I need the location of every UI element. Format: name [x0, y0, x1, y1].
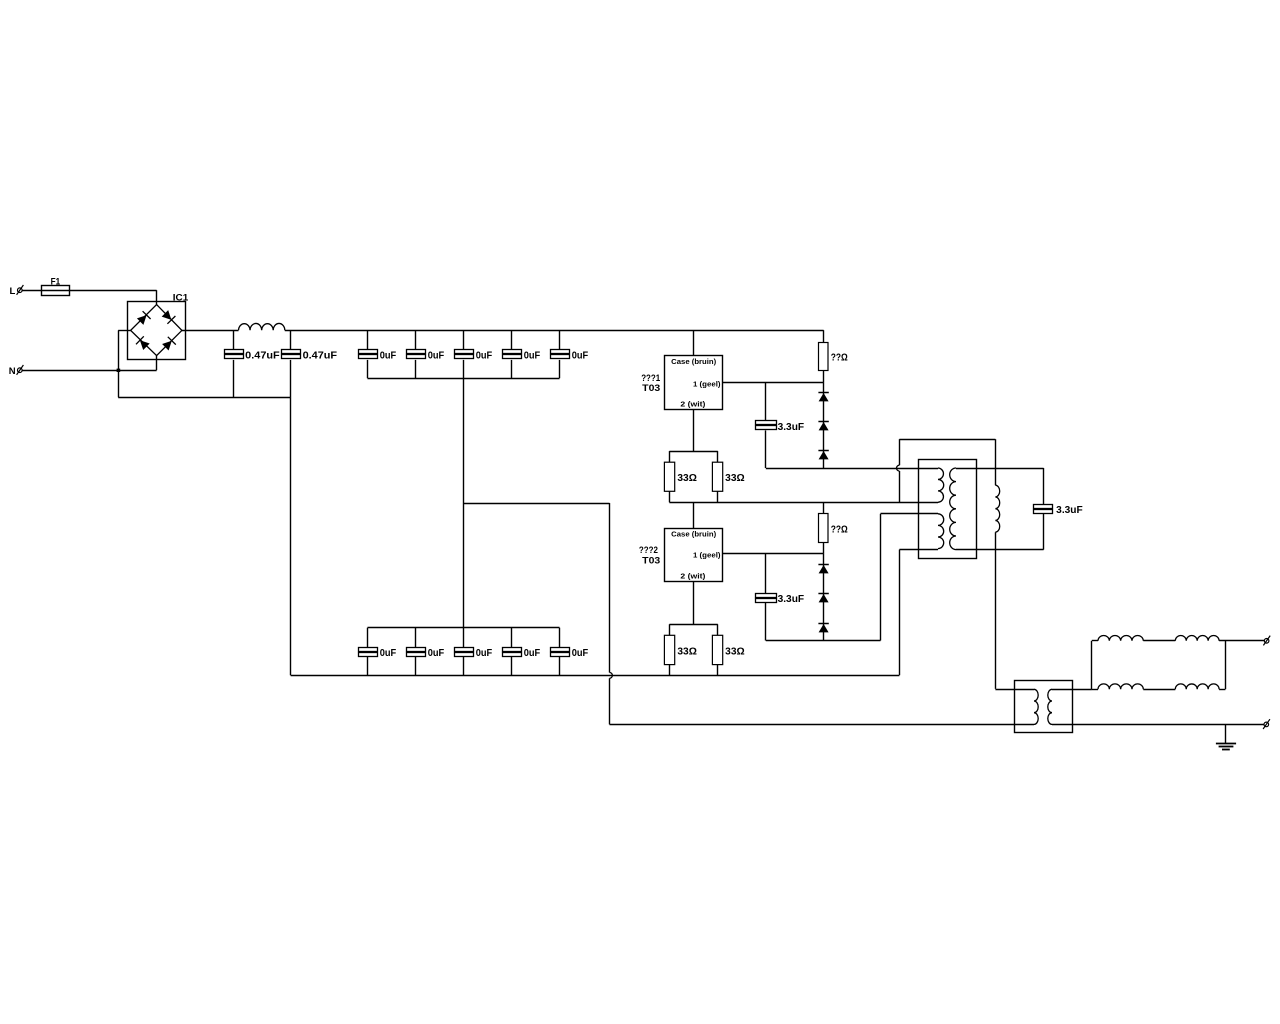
svg-text:33Ω: 33Ω	[677, 473, 697, 484]
svg-text:0.47uF: 0.47uF	[303, 350, 338, 361]
wire left bottom corner down to rail	[899, 550, 901, 676]
inductor L1 filter choke	[239, 323, 285, 330]
svg-text:0uF: 0uF	[572, 648, 589, 659]
wire T1 pin2 to 33ohm pair	[693, 409, 695, 451]
wire middle winding top to output cap	[956, 468, 1044, 470]
output transformer T2 box	[1015, 681, 1073, 733]
capacitor bank2 C9 0uF	[415, 628, 417, 648]
resistor R5 33ohm	[669, 624, 671, 635]
resistor R1 ??ohm	[823, 330, 825, 343]
svg-text:2 (wit): 2 (wit)	[680, 400, 706, 409]
svg-text:0uF: 0uF	[380, 648, 397, 659]
wire N line	[22, 370, 156, 372]
wire right edge upper	[995, 439, 997, 485]
svg-text:3.3uF: 3.3uF	[778, 594, 805, 605]
wire between inductors bottom	[1143, 689, 1175, 691]
capacitor bank1 C7 0uF	[559, 330, 561, 350]
resistor R3 33ohm	[717, 451, 719, 462]
wire to winding2 top	[881, 513, 939, 515]
wire lower return line to transformer	[610, 724, 1035, 726]
wire long left vertical to bottom rail	[290, 397, 292, 675]
capacitor C15 3.3uF output	[1043, 468, 1045, 505]
wire to output terminal 1	[1219, 640, 1264, 642]
svg-text:3.3uF: 3.3uF	[1056, 505, 1083, 516]
resistor R4 ??ohm	[823, 502, 825, 513]
wire stage2 up to winding2	[880, 514, 882, 641]
wire T2 pin2 to 33ohm pair2	[693, 581, 695, 624]
wire to T2 case	[693, 502, 695, 528]
inductor L5 output filter bottom-right	[1175, 684, 1219, 689]
wire right edge down to output transformer	[995, 689, 1034, 691]
svg-text:Case (bruin): Case (bruin)	[671, 357, 716, 366]
terminal output 1	[1264, 639, 1269, 644]
wire top loop top edge	[899, 439, 995, 441]
inductor L3 output filter top-right	[1175, 635, 1219, 640]
capacitor bank2 C10 0uF	[463, 628, 465, 648]
terminal output 2	[1264, 722, 1269, 727]
svg-text:2 (wit): 2 (wit)	[680, 572, 706, 581]
capacitor bank1 C5 0uF	[463, 330, 465, 350]
wire L to bridge top	[22, 290, 156, 292]
wire winding right bottom to output terminal 2	[1052, 724, 1264, 726]
capacitor C13 3.3uF	[765, 382, 767, 420]
wire bank1 bottom rail	[368, 378, 560, 380]
wire bridge right vertex to inductor	[182, 330, 239, 332]
transistor Q2 T03 box	[665, 529, 723, 582]
inductor L4 output filter bottom-left	[1092, 689, 1098, 691]
wire between inductors top	[1143, 640, 1175, 642]
capacitor bank1 C6 0uF	[511, 330, 513, 350]
svg-text:0uF: 0uF	[428, 648, 445, 659]
resistor R6 33ohm	[717, 624, 719, 635]
bridge diode bottom-right	[162, 341, 172, 351]
diode chain D1-D3	[823, 382, 825, 468]
junction dot N-line / left-vertex drop	[117, 369, 121, 372]
capacitor bank2 C12 0uF	[559, 628, 561, 648]
svg-text:0uF: 0uF	[476, 648, 493, 659]
bridge diode bottom-left	[140, 340, 150, 350]
wire bridge left vertex to negative rail	[118, 330, 130, 332]
wire stage2 bottom line	[766, 640, 881, 642]
transistor Q1 T03 box	[665, 356, 723, 410]
svg-text:0uF: 0uF	[524, 350, 541, 361]
svg-text:0uF: 0uF	[572, 350, 589, 361]
transformer T1 secondary winding right	[995, 485, 999, 532]
transformer middle winding	[950, 468, 956, 550]
transformer primary winding bottom-left	[938, 514, 944, 549]
resistor R2 33ohm	[669, 451, 671, 462]
wire transformer bottom line	[899, 549, 938, 551]
svg-text:??Ω: ??Ω	[831, 352, 848, 363]
output transformer winding left	[1034, 689, 1038, 724]
svg-text:0uF: 0uF	[380, 350, 397, 361]
capacitor bank2 C8 0uF	[367, 628, 369, 648]
wire T1 pin1 line	[722, 382, 824, 384]
svg-text:???2: ???2	[639, 545, 658, 556]
svg-text:N: N	[9, 366, 16, 377]
svg-text:3.3uF: 3.3uF	[778, 422, 805, 433]
svg-text:T03: T03	[642, 383, 660, 394]
wire top rail from inductor to R stage	[285, 330, 824, 332]
capacitor C2 0.47uF	[290, 330, 292, 350]
wire winding right top to filter	[1052, 689, 1092, 691]
svg-text:33Ω: 33Ω	[725, 473, 745, 484]
wire mid vertical with hop over main rail	[609, 503, 611, 673]
svg-text:??Ω: ??Ω	[831, 524, 848, 535]
fuse F1	[42, 286, 70, 296]
svg-text:T03: T03	[642, 556, 660, 567]
wire bank2 top rail	[368, 627, 560, 629]
svg-text:0.47uF: 0.47uF	[245, 350, 280, 361]
wire T1 case stub	[693, 330, 695, 355]
svg-text:33Ω: 33Ω	[677, 647, 697, 658]
svg-text:0uF: 0uF	[476, 350, 493, 361]
svg-text:0uF: 0uF	[428, 350, 445, 361]
wire bridge bottom vertex down to N line	[156, 356, 158, 371]
wire emitter rail stage1 to transformer winding	[669, 502, 938, 504]
svg-text:Case (bruin): Case (bruin)	[671, 530, 716, 539]
svg-text:1 (geel): 1 (geel)	[693, 550, 721, 559]
svg-text:33Ω: 33Ω	[725, 647, 745, 658]
svg-text:1 (geel): 1 (geel)	[693, 380, 721, 389]
capacitor bank1 C4 0uF	[415, 330, 417, 350]
ground symbol	[1225, 724, 1227, 743]
wire stage1 diode bottom line to transformer	[766, 468, 938, 470]
output transformer winding right	[1048, 689, 1052, 724]
wire T2 pin1 line	[722, 553, 824, 555]
wire negative bottom rail	[118, 397, 290, 399]
bridge diode top-left	[137, 315, 147, 325]
capacitor C1 0.47uF	[233, 330, 235, 350]
wire pair1 top rail	[669, 451, 717, 453]
wire right edge lower	[995, 532, 997, 689]
wire main bottom rail	[291, 675, 900, 677]
diode chain D4-D6	[823, 554, 825, 641]
wire filter left vertical	[1091, 641, 1093, 689]
wire bank1 to bank2 vertical	[463, 378, 465, 628]
capacitor bank1 C3 0uF	[367, 330, 369, 350]
transformer core box	[919, 460, 977, 559]
inductor L2 output filter top-left	[1092, 640, 1098, 642]
wire mid tap A horizontal	[464, 503, 610, 505]
svg-text:L: L	[10, 286, 16, 297]
wire fuse to bridge top corner	[156, 290, 158, 304]
svg-text:0uF: 0uF	[524, 648, 541, 659]
capacitor bank2 C11 0uF	[511, 628, 513, 648]
bridge diode top-right	[162, 310, 172, 320]
capacitor C14 3.3uF	[765, 554, 767, 593]
transformer primary winding top-left	[938, 468, 944, 502]
wire filter right vertical	[1225, 641, 1227, 689]
wire pair2 top rail	[669, 624, 717, 626]
svg-text:F1: F1	[51, 277, 61, 288]
wire top loop left vertical with hop	[899, 439, 901, 465]
